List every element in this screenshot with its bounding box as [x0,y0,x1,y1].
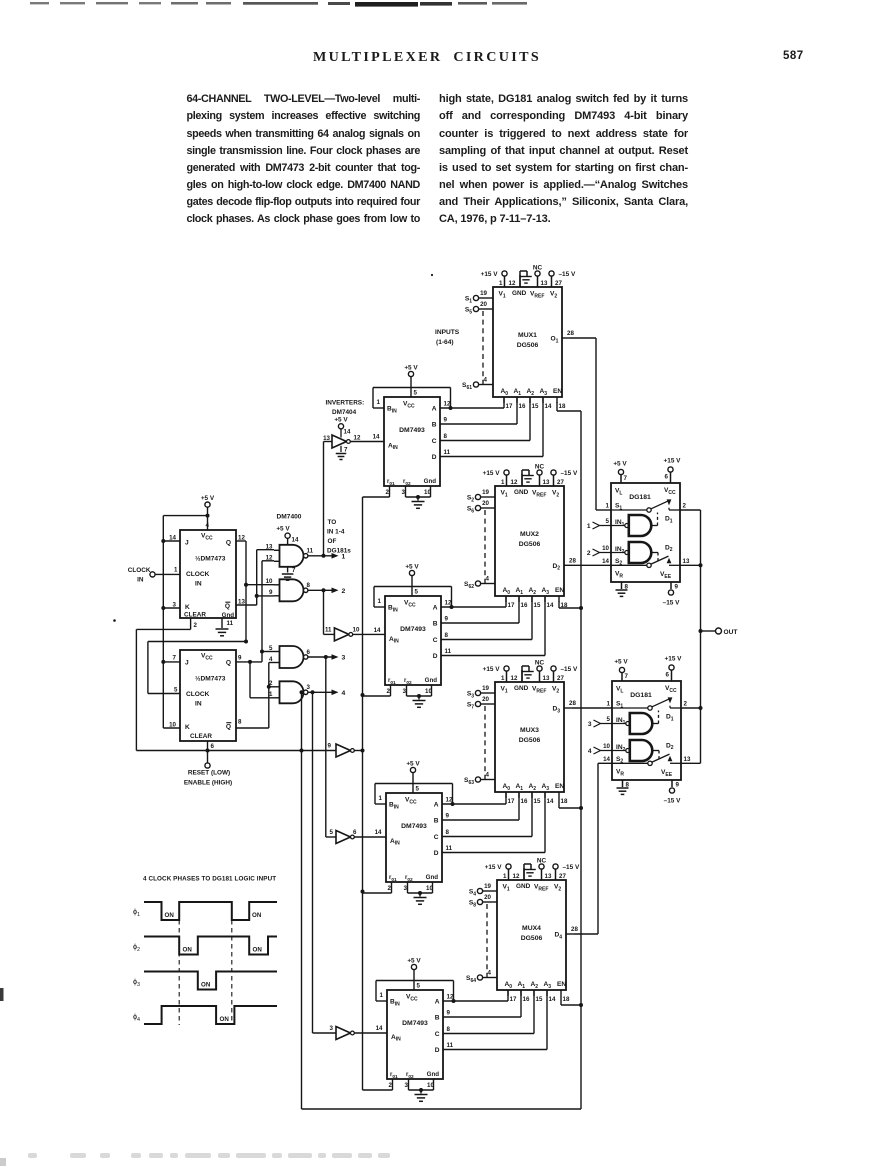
svg-text:VR: VR [616,769,624,778]
svg-text:A0: A0 [503,783,511,792]
svg-text:D: D [435,1047,440,1054]
svg-text:8: 8 [238,719,242,726]
svg-text:5: 5 [414,390,418,397]
svg-text:28: 28 [569,700,576,707]
svg-text:VCC: VCC [201,533,213,542]
svg-text:DM7400: DM7400 [277,514,302,521]
svg-text:15: 15 [532,403,539,410]
svg-text:20: 20 [484,894,491,901]
svg-text:A1: A1 [516,587,524,596]
svg-text:MUX3: MUX3 [520,727,539,734]
svg-text:+15 V: +15 V [664,458,682,465]
svg-text:13: 13 [683,558,690,565]
svg-text:Q: Q [226,724,231,731]
svg-text:9: 9 [269,589,273,596]
svg-text:2: 2 [587,550,591,557]
svg-text:A1: A1 [518,981,526,990]
svg-text:Q: Q [226,660,231,667]
svg-text:S8: S8 [469,900,476,909]
svg-text:D2: D2 [666,742,674,751]
svg-text:ϕ1: ϕ1 [133,907,140,918]
svg-text:+15 V: +15 V [665,656,683,663]
svg-text:11: 11 [447,1042,454,1049]
svg-text:10: 10 [424,489,431,496]
svg-text:S3: S3 [467,691,474,700]
svg-text:VL: VL [616,686,623,695]
svg-text:12: 12 [444,401,451,408]
svg-text:NC: NC [535,660,545,667]
svg-text:+5 V: +5 V [407,958,421,965]
svg-text:B: B [432,422,437,429]
svg-text:2: 2 [269,680,273,687]
svg-text:4: 4 [486,576,490,583]
svg-text:16: 16 [523,996,530,1003]
svg-text:+15 V: +15 V [481,271,499,278]
svg-text:11: 11 [444,449,451,456]
svg-text:28: 28 [567,330,574,337]
svg-text:K: K [185,724,190,731]
svg-text:AIN: AIN [391,1034,401,1043]
svg-text:8: 8 [446,829,450,836]
svg-text:D1: D1 [666,714,674,723]
svg-text:O1: O1 [551,336,559,345]
svg-text:V2: V2 [550,291,557,300]
svg-text:VREF: VREF [530,291,544,300]
svg-text:V2: V2 [552,490,559,499]
svg-text:INPUTS: INPUTS [435,329,460,336]
svg-text:7: 7 [173,655,177,662]
svg-text:AIN: AIN [388,442,398,451]
svg-text:EN: EN [557,981,566,988]
svg-text:A: A [433,605,438,612]
svg-text:19: 19 [482,685,489,692]
svg-text:K: K [185,604,190,611]
svg-text:DG506: DG506 [521,935,543,942]
svg-text:A: A [434,802,439,809]
svg-text:S7: S7 [467,702,474,711]
svg-text:1: 1 [499,280,503,287]
svg-text:DM7404: DM7404 [332,409,357,416]
svg-text:J: J [185,540,189,547]
svg-text:+5 V: +5 V [406,761,420,768]
svg-text:A2: A2 [527,388,535,397]
svg-text:–15 V: –15 V [563,864,580,871]
svg-text:A2: A2 [529,587,537,596]
svg-text:S1: S1 [465,296,472,305]
svg-text:VREF: VREF [532,490,546,499]
svg-text:8: 8 [447,1026,451,1033]
svg-text:6: 6 [211,743,215,750]
svg-text:9: 9 [675,584,679,591]
svg-text:A2: A2 [531,981,539,990]
svg-text:V1: V1 [499,291,506,300]
svg-text:27: 27 [559,873,566,880]
svg-text:S61: S61 [462,382,472,391]
svg-text:1: 1 [380,992,384,999]
svg-text:ϕ3: ϕ3 [133,977,140,988]
svg-text:7: 7 [624,475,628,482]
svg-text:+5 V: +5 V [404,365,418,372]
svg-text:VREF: VREF [532,686,546,695]
svg-text:EN: EN [555,587,564,594]
svg-text:A1: A1 [514,388,522,397]
svg-text:V2: V2 [554,884,561,893]
svg-text:9: 9 [238,655,242,662]
svg-text:7: 7 [292,567,296,574]
svg-text:S4: S4 [469,889,476,898]
svg-text:1: 1 [501,675,505,682]
svg-text:1: 1 [607,701,611,708]
svg-text:4 CLOCK PHASES TO DG181 LOGIC: 4 CLOCK PHASES TO DG181 LOGIC INPUT [143,876,276,883]
svg-text:TO: TO [328,519,337,526]
svg-text:10: 10 [427,1082,434,1089]
svg-text:12: 12 [511,479,518,486]
svg-text:1: 1 [377,399,381,406]
svg-text:MUX2: MUX2 [520,531,539,538]
svg-text:14: 14 [292,536,299,543]
svg-text:19: 19 [480,290,487,297]
svg-text:1: 1 [587,523,591,530]
svg-text:14: 14 [547,602,554,609]
svg-text:+5 V: +5 V [614,659,628,666]
svg-text:13: 13 [266,544,273,551]
svg-text:ENABLE (HIGH): ENABLE (HIGH) [184,780,232,787]
svg-text:ON: ON [183,947,193,954]
svg-text:IN: IN [137,577,144,584]
svg-text:9: 9 [445,616,449,623]
svg-text:B: B [435,1015,440,1022]
svg-text:17: 17 [506,403,513,410]
svg-text:3: 3 [342,655,346,662]
svg-text:10: 10 [425,688,432,695]
svg-text:A0: A0 [505,981,513,990]
svg-text:+5 V: +5 V [201,495,215,502]
svg-text:+15 V: +15 V [485,864,503,871]
svg-text:9: 9 [444,417,448,424]
svg-text:BIN: BIN [388,605,398,614]
svg-text:DG506: DG506 [519,737,541,744]
svg-text:BIN: BIN [389,802,399,811]
svg-text:8: 8 [307,582,311,589]
svg-text:5: 5 [417,983,421,990]
svg-text:(1-64): (1-64) [436,339,454,346]
svg-text:18: 18 [559,403,566,410]
svg-text:C: C [434,834,439,841]
svg-text:AIN: AIN [389,636,399,645]
svg-text:12: 12 [513,873,520,880]
svg-text:IN1: IN1 [616,717,626,726]
svg-text:RESET (LOW): RESET (LOW) [188,770,230,777]
svg-text:12: 12 [446,797,453,804]
svg-text:3: 3 [404,885,408,892]
svg-text:3: 3 [330,1025,334,1032]
svg-text:V1: V1 [503,884,510,893]
svg-text:14: 14 [547,798,554,805]
svg-text:20: 20 [482,500,489,507]
svg-text:CLEAR: CLEAR [184,612,206,619]
svg-text:1: 1 [501,479,505,486]
svg-text:A3: A3 [544,981,552,990]
svg-text:5: 5 [415,589,419,596]
svg-text:A2: A2 [529,783,537,792]
svg-text:13: 13 [543,675,550,682]
svg-text:12: 12 [266,555,273,562]
svg-text:11: 11 [446,845,453,852]
svg-text:4: 4 [342,690,346,697]
svg-text:S6: S6 [467,506,474,515]
svg-text:ON: ON [165,912,175,919]
svg-text:CLOCK: CLOCK [186,691,210,698]
svg-text:J: J [185,660,189,667]
svg-text:DM7493: DM7493 [402,1020,428,1027]
svg-text:S62: S62 [464,581,474,590]
svg-text:15: 15 [536,996,543,1003]
svg-text:6: 6 [666,672,670,679]
svg-text:D3: D3 [553,706,561,715]
svg-text:+15 V: +15 V [483,470,501,477]
svg-text:14: 14 [549,996,556,1003]
svg-text:D: D [434,850,439,857]
svg-text:–15 V: –15 V [664,798,681,805]
svg-text:DM7493: DM7493 [400,626,426,633]
svg-text:3: 3 [403,688,407,695]
svg-text:13: 13 [543,479,550,486]
svg-text:Q: Q [225,603,230,610]
svg-text:19: 19 [482,489,489,496]
svg-text:+5 V: +5 V [613,461,627,468]
svg-text:7: 7 [344,447,348,454]
svg-text:1: 1 [378,598,382,605]
svg-text:1: 1 [174,566,178,573]
svg-text:14: 14 [375,829,382,836]
svg-text:5: 5 [416,786,420,793]
svg-text:B: B [433,621,438,628]
svg-text:14: 14 [373,434,380,441]
svg-text:GND: GND [514,489,529,496]
svg-text:A0: A0 [501,388,509,397]
svg-text:Gnd: Gnd [426,874,439,881]
svg-text:1: 1 [379,795,383,802]
svg-text:20: 20 [480,301,487,308]
svg-text:MUX1: MUX1 [518,332,537,339]
svg-text:16: 16 [519,403,526,410]
svg-text:9: 9 [446,813,450,820]
svg-text:NC: NC [537,858,547,865]
svg-text:3: 3 [307,684,311,691]
svg-text:ϕ4: ϕ4 [133,1012,140,1023]
svg-text:12: 12 [509,280,516,287]
svg-text:2: 2 [684,701,688,708]
svg-text:5: 5 [606,518,610,525]
svg-text:10: 10 [602,545,609,552]
svg-text:VL: VL [615,488,622,497]
svg-text:10: 10 [603,743,610,750]
svg-text:6: 6 [665,474,669,481]
svg-text:11: 11 [227,620,234,627]
svg-text:19: 19 [484,883,491,890]
svg-text:DG181s: DG181s [327,548,351,555]
svg-text:20: 20 [482,696,489,703]
svg-text:AIN: AIN [390,838,400,847]
svg-text:17: 17 [508,798,515,805]
svg-text:5: 5 [174,686,178,693]
svg-text:2: 2 [389,1082,393,1089]
svg-text:13: 13 [541,280,548,287]
svg-text:9: 9 [328,743,332,750]
svg-text:12: 12 [511,675,518,682]
svg-text:VCC: VCC [404,600,416,609]
svg-text:A: A [435,999,440,1006]
svg-text:ON: ON [252,912,262,919]
svg-text:ϕ2: ϕ2 [133,942,140,953]
svg-text:VEE: VEE [661,769,673,778]
svg-text:D4: D4 [555,932,563,941]
svg-text:14: 14 [602,558,609,565]
svg-text:VCC: VCC [405,797,417,806]
svg-text:–15 V: –15 V [561,470,578,477]
svg-text:4: 4 [588,748,592,755]
svg-text:C: C [432,438,437,445]
svg-text:GND: GND [514,685,529,692]
svg-text:INVERTERS:: INVERTERS: [326,400,365,407]
svg-text:18: 18 [561,798,568,805]
svg-text:4: 4 [269,656,273,663]
svg-text:IN: IN [195,701,202,708]
svg-text:V1: V1 [501,686,508,695]
svg-text:3: 3 [402,489,406,496]
svg-text:S64: S64 [466,975,476,984]
svg-text:2: 2 [194,622,198,629]
svg-text:14: 14 [603,756,610,763]
svg-text:DG506: DG506 [517,342,539,349]
svg-text:A: A [432,406,437,413]
svg-text:EN: EN [555,783,564,790]
svg-text:17: 17 [510,996,517,1003]
svg-text:Gnd: Gnd [222,612,235,619]
svg-text:IN1: IN1 [615,519,625,528]
svg-text:13: 13 [545,873,552,880]
svg-text:A1: A1 [516,783,524,792]
svg-text:A3: A3 [542,783,550,792]
svg-text:A3: A3 [542,587,550,596]
svg-text:4: 4 [486,772,490,779]
svg-text:S5: S5 [465,307,472,316]
svg-text:12: 12 [447,994,454,1001]
svg-text:9: 9 [676,782,680,789]
svg-text:DG506: DG506 [519,541,541,548]
svg-text:11: 11 [307,548,314,555]
svg-text:9: 9 [447,1010,451,1017]
svg-text:2: 2 [388,885,392,892]
svg-text:S2: S2 [467,495,474,504]
svg-text:Gnd: Gnd [424,478,437,485]
svg-text:IN2: IN2 [615,546,625,555]
svg-text:28: 28 [569,557,576,564]
svg-text:14: 14 [344,429,351,436]
svg-text:10: 10 [353,627,360,634]
svg-text:VEE: VEE [660,571,672,580]
svg-text:14: 14 [545,403,552,410]
svg-text:ON: ON [253,947,263,954]
svg-text:D1: D1 [665,516,673,525]
svg-text:27: 27 [555,280,562,287]
svg-text:IN: IN [195,581,202,588]
svg-text:EN: EN [553,388,562,395]
svg-text:D: D [432,454,437,461]
svg-text:Q: Q [226,540,231,547]
svg-text:8: 8 [444,433,448,440]
svg-text:15: 15 [534,798,541,805]
svg-text:Gnd: Gnd [427,1071,440,1078]
svg-text:D: D [433,653,438,660]
svg-text:C: C [433,637,438,644]
svg-text:+5 V: +5 V [334,417,348,424]
svg-text:16: 16 [521,798,528,805]
svg-text:15: 15 [534,602,541,609]
svg-text:CLOCK: CLOCK [128,567,151,574]
svg-text:V1: V1 [501,490,508,499]
svg-text:2: 2 [386,489,390,496]
svg-text:MUX4: MUX4 [522,925,541,932]
svg-text:½DM7473: ½DM7473 [195,555,226,563]
svg-text:14: 14 [376,1025,383,1032]
svg-text:IN2: IN2 [616,744,626,753]
svg-text:1: 1 [503,873,507,880]
svg-text:12: 12 [354,435,361,442]
svg-text:VCC: VCC [406,994,418,1003]
svg-text:13: 13 [684,756,691,763]
svg-text:12: 12 [445,600,452,607]
svg-text:OF: OF [328,538,337,545]
svg-text:VCC: VCC [664,487,676,496]
svg-text:DG181: DG181 [630,692,652,699]
svg-text:–15 V: –15 V [663,600,680,607]
svg-text:½DM7473: ½DM7473 [195,675,226,683]
svg-text:D2: D2 [665,544,673,553]
svg-text:VR: VR [615,571,623,580]
svg-text:IN 1-4: IN 1-4 [327,529,345,536]
svg-text:18: 18 [563,996,570,1003]
svg-text:3: 3 [588,721,592,728]
svg-text:–15 V: –15 V [559,271,576,278]
svg-text:+15 V: +15 V [483,666,501,673]
svg-text:DM7493: DM7493 [399,427,425,434]
svg-text:27: 27 [557,479,564,486]
svg-text:S63: S63 [464,777,474,786]
svg-text:DM7493: DM7493 [401,823,427,830]
svg-text:10: 10 [426,885,433,892]
svg-text:7: 7 [625,673,629,680]
svg-text:CLEAR: CLEAR [190,733,212,740]
svg-text:1: 1 [606,503,610,510]
svg-text:3: 3 [405,1082,409,1089]
svg-text:GND: GND [516,883,531,890]
svg-text:27: 27 [557,675,564,682]
svg-text:4: 4 [488,970,492,977]
svg-text:11: 11 [445,648,452,655]
svg-text:Gnd: Gnd [425,677,438,684]
svg-text:VCC: VCC [201,653,213,662]
svg-text:A0: A0 [503,587,511,596]
svg-text:ON: ON [201,982,211,989]
svg-text:V2: V2 [552,686,559,695]
svg-text:ON: ON [220,1016,230,1023]
svg-text:DG181: DG181 [629,494,651,501]
svg-text:NC: NC [535,464,545,471]
svg-text:6: 6 [307,649,311,656]
svg-text:CLOCK: CLOCK [186,571,210,578]
svg-text:1: 1 [269,691,273,698]
